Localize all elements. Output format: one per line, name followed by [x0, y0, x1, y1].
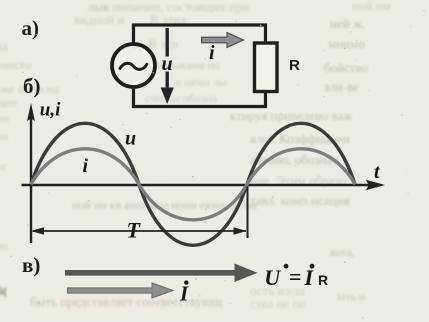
- t-axis arrowhead: [366, 180, 386, 191]
- svg-text:нисто: нисто: [0, 57, 32, 72]
- svg-text:ыть н: ыть н: [337, 289, 366, 303]
- svg-text:быть представляет соответств: быть представляет соответствующ: [30, 294, 222, 309]
- svg-text:U: U: [264, 265, 281, 290]
- svg-text:в): в): [22, 253, 40, 277]
- curve u (voltage sine): [31, 123, 355, 245]
- svg-text:ос: ос: [0, 159, 8, 173]
- svg-text:о нями лы: о нями лы: [175, 75, 227, 89]
- svg-text:во: во: [0, 239, 8, 253]
- svg-text:ктируя приведено важ: ктируя приведено важ: [230, 108, 353, 123]
- svg-text:ли: ли: [0, 129, 9, 143]
- period tick at T end: [247, 187, 249, 239]
- phasor U (dark arrow): [65, 264, 258, 283]
- svg-text:впт: впт: [0, 96, 18, 110]
- svg-text:u: u: [125, 128, 136, 150]
- wire top (source top to resistor top): [134, 25, 266, 44]
- svg-text:ней ж.: ней ж.: [330, 16, 365, 31]
- svg-text:а): а): [22, 16, 40, 40]
- dimension line T (period, double arrow): [31, 227, 247, 235]
- svg-text:ства не по: ства не по: [250, 296, 306, 311]
- y-axis (u,i axis): [30, 112, 32, 243]
- wire bottom (source bottom to resistor bottom): [134, 87, 266, 107]
- svg-text:R: R: [289, 57, 300, 74]
- left page-edge fragments: [0, 39, 9, 298]
- svg-text:i: i: [209, 42, 215, 64]
- svg-text:бойство: бойство: [324, 60, 368, 75]
- svg-text:R: R: [318, 272, 328, 288]
- dot above I: [184, 280, 188, 284]
- svg-text:u: u: [162, 53, 173, 75]
- curve i (current sine): [31, 149, 355, 220]
- current arrow i: [202, 33, 244, 48]
- sine symbol inside source: [120, 63, 147, 69]
- t-axis (time axis): [22, 184, 371, 186]
- svg-text:T: T: [127, 218, 142, 243]
- resistor R: [255, 43, 278, 92]
- svg-text:=: =: [289, 264, 302, 289]
- svg-text:эли-ве: эли-ве: [324, 79, 359, 94]
- svg-text:ной им: ной им: [352, 0, 391, 13]
- svg-text:I: I: [304, 265, 315, 290]
- voltage arrow u: [161, 28, 174, 104]
- svg-text:В эти: В эти: [148, 36, 178, 51]
- label U=IR: [264, 265, 314, 290]
- svg-text:I: I: [179, 282, 189, 306]
- y-axis arrowhead: [27, 103, 35, 121]
- svg-text:u,i: u,i: [40, 100, 61, 121]
- svg-text:нн: нн: [0, 111, 9, 125]
- svg-text:вд: вд: [0, 39, 7, 53]
- svg-text:й(: й(: [0, 284, 7, 298]
- svg-text:мнимо: мнимо: [328, 36, 365, 51]
- svg-text:кота,: кота,: [330, 245, 355, 259]
- svg-text:видной и: видной и: [74, 12, 124, 27]
- svg-text:б): б): [23, 74, 41, 98]
- phasor I (gray arrow): [68, 283, 174, 298]
- svg-text:тавл. комп нсация: тавл. комп нсация: [250, 193, 349, 208]
- svg-text:считан обозна: считан обозна: [145, 91, 218, 105]
- AC source G: [112, 44, 155, 87]
- dots above U and I: [284, 264, 289, 269]
